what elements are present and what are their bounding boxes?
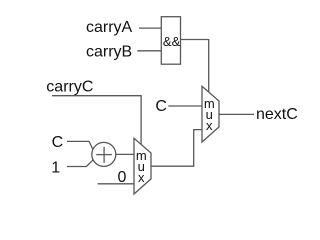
svg-text:&&: && bbox=[163, 34, 181, 49]
svg-text:C: C bbox=[52, 134, 64, 151]
svg-text:carryB: carryB bbox=[86, 44, 132, 61]
svg-text:carryA: carryA bbox=[86, 19, 133, 36]
svg-text:carryC: carryC bbox=[46, 78, 93, 95]
svg-text:0: 0 bbox=[118, 169, 127, 186]
svg-text:C: C bbox=[155, 98, 167, 115]
svg-text:x: x bbox=[206, 118, 213, 133]
svg-text:x: x bbox=[138, 170, 145, 185]
svg-text:nextC: nextC bbox=[256, 106, 298, 123]
svg-text:1: 1 bbox=[51, 159, 60, 176]
